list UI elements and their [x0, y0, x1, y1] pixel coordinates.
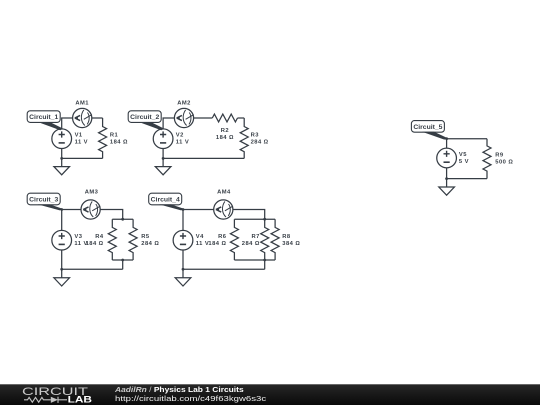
node label Circuit_5	[411, 121, 447, 140]
svg-text:R9: R9	[495, 152, 504, 158]
wire V1 top to AM1	[62, 118, 73, 129]
wire AM2 to R2	[194, 117, 213, 119]
wire bottom circuit5	[447, 178, 487, 180]
junction dot bottom circuit4	[182, 268, 185, 271]
svg-text:11 V: 11 V	[74, 241, 87, 247]
junction dot bottom circuit3	[60, 268, 63, 271]
wire node to AM3	[62, 209, 81, 211]
svg-text:V2: V2	[176, 132, 184, 138]
resistor R2	[212, 114, 237, 141]
svg-text:Circuit_1: Circuit_1	[29, 114, 58, 121]
wire AM4 to parallel block	[233, 210, 265, 220]
resistor R8	[271, 219, 300, 260]
svg-text:184 Ω: 184 Ω	[110, 140, 128, 146]
resistor R5	[129, 219, 159, 260]
wire node to R9 top	[447, 138, 487, 140]
ammeter AM1	[73, 101, 92, 128]
svg-text:R2: R2	[221, 128, 229, 134]
voltage source V2	[153, 129, 189, 149]
voltage source V4	[173, 230, 209, 250]
svg-text:AM4: AM4	[217, 190, 231, 196]
wire AM1 to R1	[92, 117, 103, 119]
svg-text:V5: V5	[459, 152, 467, 158]
junction dot top bar circuit4	[263, 218, 266, 221]
svg-text:http://circuitlab.com/c49f63kg: http://circuitlab.com/c49f63kgw6s3c	[115, 394, 267, 402]
wire node to V3	[61, 210, 63, 231]
svg-text:AM1: AM1	[75, 101, 89, 107]
ground circuit1	[54, 167, 70, 175]
svg-text:AM2: AM2	[177, 101, 191, 107]
wire V2 top to AM2	[163, 118, 174, 129]
svg-text:R6: R6	[218, 234, 227, 240]
junction dot bottom bar circuit4	[263, 259, 266, 262]
junction dot circuit1	[60, 157, 63, 160]
svg-text:V1: V1	[75, 132, 83, 138]
svg-text:5 V: 5 V	[459, 159, 469, 165]
wire node to AM4	[183, 209, 214, 211]
junction dot circuit2	[162, 157, 165, 160]
svg-text:LAB: LAB	[68, 395, 93, 405]
svg-text:Circuit_3: Circuit_3	[29, 197, 58, 204]
wire node to V5	[446, 139, 448, 149]
wire bottom circuit2	[163, 157, 244, 159]
wire AM3 to parallel block	[100, 210, 123, 220]
junction dot node circuit4	[182, 208, 185, 211]
wire bottom bar circuit3	[112, 259, 133, 261]
svg-text:AadilRn / Physics Lab 1 Circui: AadilRn / Physics Lab 1 Circuits	[114, 386, 244, 394]
svg-text:V4: V4	[196, 234, 204, 240]
svg-text:500 Ω: 500 Ω	[495, 160, 513, 166]
wire bottom bar circuit4	[234, 259, 275, 261]
svg-text:284 Ω: 284 Ω	[242, 241, 260, 247]
wire bottom circuit3	[62, 268, 123, 270]
wire top bar circuit4	[234, 218, 275, 220]
svg-text:11 V: 11 V	[196, 241, 209, 247]
wire V5 bottom	[446, 168, 448, 187]
voltage source V1	[52, 129, 88, 149]
wire V3 bottom	[61, 250, 63, 278]
wire parallel block down circuit3	[122, 260, 124, 269]
resistor R7	[242, 219, 269, 260]
resistor R4	[86, 219, 117, 260]
voltage source V3	[52, 230, 88, 250]
svg-text:184 Ω: 184 Ω	[208, 241, 226, 247]
junction dot bottom bar circuit3	[121, 259, 124, 262]
ground circuit2	[155, 167, 171, 175]
footer bar	[0, 384, 540, 405]
wire V4 bottom	[182, 250, 184, 278]
svg-text:284 Ω: 284 Ω	[251, 140, 269, 146]
svg-text:R4: R4	[95, 234, 104, 240]
svg-text:R7: R7	[251, 234, 259, 240]
node label Circuit_4	[149, 193, 184, 210]
svg-text:V3: V3	[74, 234, 82, 240]
voltage source V5	[437, 148, 469, 168]
resistor R3	[240, 118, 268, 158]
svg-text:384 Ω: 384 Ω	[282, 241, 300, 247]
ammeter AM4	[214, 190, 233, 219]
junction dot top bar circuit3	[121, 218, 124, 221]
junction dot node circuit5	[445, 137, 448, 140]
wire V2 bottom	[162, 149, 164, 167]
resistor R9	[483, 139, 513, 179]
ammeter AM3	[81, 190, 100, 219]
svg-text:184 Ω: 184 Ω	[216, 135, 234, 141]
svg-text:11 V: 11 V	[75, 140, 88, 146]
svg-text:Circuit_2: Circuit_2	[130, 114, 159, 121]
ground circuit5	[439, 187, 455, 195]
wire parallel block down circuit4	[264, 260, 266, 269]
ground circuit3	[54, 278, 70, 286]
wire bottom circuit4	[183, 268, 265, 270]
node label Circuit_1	[27, 111, 63, 130]
svg-text:AM3: AM3	[85, 190, 99, 196]
svg-text:Circuit_4: Circuit_4	[151, 197, 180, 204]
resistor R1	[99, 118, 128, 158]
wire bottom circuit1	[62, 157, 103, 159]
junction dot node circuit3	[60, 208, 63, 211]
node label Circuit_3	[27, 193, 62, 210]
ground circuit4	[175, 278, 191, 286]
svg-text:184 Ω: 184 Ω	[86, 241, 104, 247]
wire node to V4	[182, 210, 184, 231]
svg-text:R5: R5	[141, 234, 150, 240]
junction dot bottom circuit5	[445, 177, 448, 180]
wire R2 to R3	[238, 117, 245, 119]
svg-text:284 Ω: 284 Ω	[141, 241, 159, 247]
wire top bar circuit3	[112, 218, 133, 220]
wire V1 bottom	[61, 149, 63, 167]
ammeter AM2	[174, 101, 193, 128]
svg-text:R1: R1	[110, 132, 119, 138]
logo resistor-diode symbol	[24, 397, 67, 403]
svg-text:R3: R3	[251, 132, 260, 138]
svg-text:11 V: 11 V	[176, 140, 189, 146]
resistor R6	[208, 219, 238, 260]
svg-text:R8: R8	[282, 234, 291, 240]
svg-text:Circuit_5: Circuit_5	[413, 124, 442, 131]
node label Circuit_2	[128, 111, 164, 130]
